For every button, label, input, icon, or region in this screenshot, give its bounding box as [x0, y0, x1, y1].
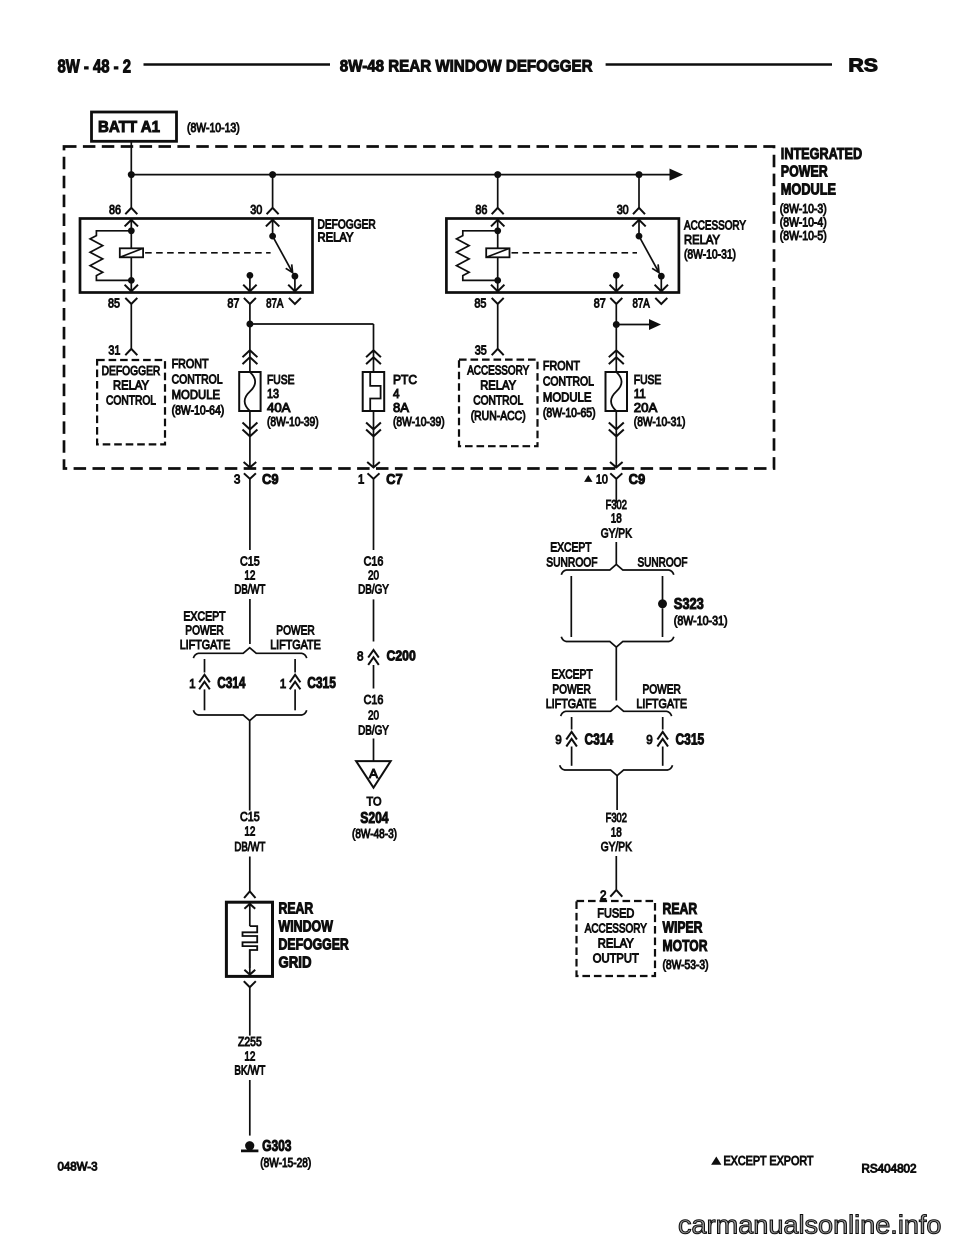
svg-text:C200: C200	[387, 647, 416, 664]
bus wire from battery	[131, 174, 670, 176]
svg-text:DEFOGGER: DEFOGGER	[318, 217, 376, 231]
svg-text:RELAY: RELAY	[113, 379, 150, 393]
header rule right	[606, 63, 832, 66]
svg-text:86: 86	[475, 202, 487, 217]
wire bus to accessory relay pin 30	[638, 175, 640, 208]
svg-text:(8W-53-3): (8W-53-3)	[663, 958, 709, 972]
grid pin connector	[244, 891, 255, 898]
wire except-sunroof branch	[570, 576, 572, 637]
svg-text:ACCESSORY: ACCESSORY	[585, 922, 648, 936]
svg-text:ACCESSORY: ACCESSORY	[684, 219, 747, 233]
defogger relay contact 87A	[292, 273, 299, 280]
splice S323	[658, 599, 667, 608]
svg-text:RELAY: RELAY	[480, 379, 517, 393]
svg-text:BATT A1: BATT A1	[98, 119, 160, 136]
liftgate split brace right column	[561, 706, 672, 716]
off-page reference triangle A	[356, 761, 391, 788]
connector C314 pin 9	[566, 732, 577, 740]
svg-text:LIFTGATE: LIFTGATE	[636, 696, 687, 711]
wire to off-page triangle	[373, 739, 375, 762]
svg-text:8A: 8A	[393, 401, 410, 415]
battery feed box BATT A1	[92, 112, 177, 141]
PTC 4	[363, 372, 385, 411]
svg-text:(8W-48-3): (8W-48-3)	[352, 827, 397, 841]
wire to ground	[249, 1080, 251, 1136]
svg-text:4: 4	[393, 387, 400, 401]
svg-text:20: 20	[368, 708, 379, 723]
svg-text:EXCEPT: EXCEPT	[550, 539, 591, 554]
accessory relay contact 87A	[658, 273, 665, 280]
PTC 4 connector chevrons bottom	[366, 423, 381, 430]
wire C200 down	[373, 665, 375, 689]
svg-text:REAR: REAR	[279, 901, 314, 918]
svg-text:C16: C16	[364, 553, 384, 568]
svg-text:CONTROL: CONTROL	[543, 375, 594, 389]
wire C315-1 down	[294, 689, 296, 710]
rear window defogger grid box	[226, 902, 272, 976]
svg-text:POWER: POWER	[781, 164, 828, 181]
svg-text:18: 18	[611, 824, 622, 839]
svg-text:C9: C9	[629, 471, 646, 488]
svg-text:(8W-15-28): (8W-15-28)	[260, 1156, 311, 1170]
svg-text:(8W-10-31): (8W-10-31)	[634, 415, 686, 429]
wire merge to C15 label	[249, 721, 251, 811]
svg-text:DEFOGGER: DEFOGGER	[102, 364, 161, 378]
accessory relay bottom pin connectors	[492, 298, 504, 304]
svg-text:11: 11	[634, 387, 646, 401]
svg-text:FUSED: FUSED	[597, 907, 634, 921]
wire defogger 85 to pin 31	[130, 304, 132, 349]
svg-text:31: 31	[108, 343, 120, 358]
svg-text:(8W-10-31): (8W-10-31)	[674, 614, 728, 628]
defogger relay contact 87	[247, 272, 254, 279]
svg-text:C15: C15	[240, 809, 260, 824]
grid internal bottom arrow	[249, 950, 251, 976]
svg-text:GRID: GRID	[279, 955, 312, 972]
svg-text:SUNROOF: SUNROOF	[638, 554, 688, 569]
svg-text:LIFTGATE: LIFTGATE	[546, 696, 597, 711]
header rule left	[144, 63, 331, 66]
svg-text:S323: S323	[674, 596, 704, 613]
integrated power module dashed border	[64, 147, 774, 469]
accessory relay pin 86 internal wire	[497, 219, 499, 281]
bus arrow continuation	[670, 169, 682, 180]
fuse 11	[606, 372, 628, 411]
svg-text:RS: RS	[848, 56, 878, 76]
svg-text:PTC: PTC	[393, 373, 417, 387]
svg-text:TO: TO	[367, 795, 382, 809]
svg-text:9: 9	[555, 732, 562, 747]
svg-text:RELAY: RELAY	[598, 937, 635, 951]
svg-text:CONTROL: CONTROL	[106, 393, 156, 407]
svg-text:C16: C16	[364, 692, 384, 707]
svg-text:1: 1	[280, 676, 287, 691]
wire to sunroof split	[615, 542, 617, 565]
defogger relay linkage dashed	[145, 252, 271, 254]
svg-text:20: 20	[368, 567, 379, 582]
svg-text:(8W-10-65): (8W-10-65)	[543, 406, 596, 420]
wire PTC to C7	[373, 411, 375, 467]
wire to C314 pin 9	[571, 717, 573, 730]
wire BATT A1 to bus	[130, 141, 132, 174]
svg-text:10: 10	[596, 471, 608, 486]
svg-text:(8W-10-31): (8W-10-31)	[684, 248, 736, 262]
svg-text:F302: F302	[606, 810, 627, 825]
ground G303	[245, 1141, 254, 1150]
wire to C315 pin 9	[662, 717, 664, 730]
wire sunroof branch upper	[662, 576, 664, 600]
svg-text:(8W-10-64): (8W-10-64)	[172, 404, 225, 418]
wire to C314 pin 1	[204, 659, 206, 673]
defogger relay coil	[120, 248, 143, 257]
svg-text:FRONT: FRONT	[543, 359, 580, 373]
svg-text:EXCEPT EXPORT: EXCEPT EXPORT	[724, 1154, 814, 1168]
wire merge to liftgate split right	[615, 647, 617, 700]
svg-text:S204: S204	[360, 810, 389, 827]
defogger relay coil resistor	[90, 231, 131, 281]
wire C314 down	[571, 747, 573, 766]
rear wiper motor dashed box	[577, 901, 656, 976]
connector C9 pin 10 at IPM border	[610, 462, 623, 467]
svg-text:INTEGRATED: INTEGRATED	[781, 146, 862, 163]
wire bus to accessory relay pin 86	[497, 175, 499, 208]
liftgate merge brace left column	[193, 710, 306, 720]
accessory relay coil resistor	[457, 231, 498, 281]
bus junction node accessory 86	[494, 171, 501, 178]
wire merge to F302 label	[616, 776, 618, 810]
bus junction node battery	[128, 171, 135, 178]
svg-text:12: 12	[244, 1048, 255, 1063]
defogger relay bottom pin connectors	[125, 298, 137, 304]
wire grid to Z255 label	[249, 987, 251, 1035]
connector C315 pin 9	[657, 732, 668, 740]
svg-text:85: 85	[474, 295, 486, 310]
svg-text:85: 85	[108, 295, 120, 310]
grid internal top arrow	[249, 902, 251, 926]
defogger relay pin 86 internal wire	[130, 219, 132, 281]
wire fuse 13 to C9	[249, 411, 251, 467]
svg-text:1: 1	[189, 676, 196, 691]
fuse 13	[239, 372, 260, 411]
connector C314 pin 1	[199, 675, 210, 683]
wire to C315 pin 1	[294, 659, 296, 673]
svg-text:1: 1	[358, 471, 365, 486]
junction node defogger 87 feed	[246, 321, 253, 328]
connector C9 pin 3 at IPM border	[244, 462, 257, 467]
accessory relay control dashed box	[459, 360, 538, 447]
svg-text:(8W-10-39): (8W-10-39)	[393, 415, 445, 429]
sunroof merge brace	[561, 637, 674, 647]
defogger relay pin 85 internal wire	[130, 280, 132, 291]
wire to C200	[373, 599, 375, 641]
sunroof split brace	[561, 564, 674, 574]
connector C200 pin 8	[368, 650, 379, 658]
svg-text:87A: 87A	[633, 295, 651, 310]
svg-text:C7: C7	[386, 471, 403, 488]
svg-text:30: 30	[617, 202, 629, 217]
svg-text:CONTROL: CONTROL	[172, 373, 223, 387]
liftgate split brace left column	[193, 648, 306, 658]
svg-text:DB/GY: DB/GY	[358, 582, 389, 597]
wire sunroof branch lower	[662, 608, 664, 637]
fuse 13 connector chevrons bottom	[243, 423, 258, 430]
svg-text:LIFTGATE: LIFTGATE	[270, 637, 321, 652]
svg-text:LIFTGATE: LIFTGATE	[180, 637, 231, 652]
svg-text:G303: G303	[262, 1138, 291, 1155]
svg-text:9: 9	[646, 732, 653, 747]
footer except-export note	[712, 1157, 721, 1164]
svg-text:87: 87	[227, 295, 239, 310]
wire to defogger grid	[249, 857, 251, 892]
wire accessory 85 to pin 35	[497, 304, 499, 349]
svg-text:DB/GY: DB/GY	[358, 722, 389, 737]
relay box accessory relay	[446, 219, 679, 293]
connector C7 pin 1 at IPM border	[367, 462, 380, 467]
svg-text:40A: 40A	[267, 401, 291, 415]
svg-text:(8W-10-3): (8W-10-3)	[780, 202, 827, 216]
svg-text:FUSE: FUSE	[267, 373, 295, 387]
wire C9-3 down	[249, 479, 251, 550]
svg-text:13: 13	[267, 387, 279, 401]
svg-text:ACCESSORY: ACCESSORY	[467, 363, 530, 377]
wire to rear wiper motor pin 2	[615, 856, 617, 890]
wire fuse 11 to C9	[615, 411, 617, 467]
wire C314-1 down	[204, 689, 206, 710]
wire defogger 87 to junction	[249, 304, 251, 324]
svg-text:POWER: POWER	[185, 623, 223, 638]
wire accessory 87 to junction	[615, 304, 617, 325]
junction node accessory 87 feed	[613, 321, 620, 328]
svg-text:86: 86	[109, 202, 121, 217]
accessory relay pin 30 internal wire and switch arm	[638, 219, 640, 237]
svg-text:carmanualsonline.info: carmanualsonline.info	[678, 1209, 942, 1239]
wire C7-1 down	[373, 479, 375, 550]
svg-text:MODULE: MODULE	[781, 181, 836, 198]
pin 35 connector	[492, 349, 504, 355]
svg-text:DB/WT: DB/WT	[234, 582, 265, 597]
svg-text:FRONT: FRONT	[172, 357, 209, 371]
branch arrow to other circuits	[616, 324, 650, 326]
svg-text:3: 3	[234, 471, 241, 486]
wire junction to fuse 11	[615, 325, 617, 373]
svg-text:GY/PK: GY/PK	[601, 526, 632, 541]
svg-text:(8W-10-5): (8W-10-5)	[780, 229, 827, 243]
fuse 13 connector chevrons top	[243, 350, 258, 357]
svg-text:048W-3: 048W-3	[58, 1161, 98, 1173]
svg-text:(8W-10-13): (8W-10-13)	[187, 121, 240, 135]
grid bottom pin connector	[244, 981, 256, 987]
wire junction down to fuse 13	[249, 324, 251, 372]
svg-text:35: 35	[475, 343, 487, 358]
svg-text:RELAY: RELAY	[318, 231, 355, 245]
svg-text:C9: C9	[262, 471, 279, 488]
svg-text:RELAY: RELAY	[684, 233, 721, 247]
wire bus to defogger relay pin 30	[272, 175, 274, 208]
svg-text:EXCEPT: EXCEPT	[551, 667, 592, 682]
svg-text:C315: C315	[676, 731, 705, 748]
svg-text:Z255: Z255	[238, 1034, 262, 1049]
defogger relay control dashed box	[97, 360, 165, 444]
svg-text:8W-48 REAR WINDOW DEFOGGER: 8W-48 REAR WINDOW DEFOGGER	[340, 56, 593, 75]
svg-text:REAR: REAR	[663, 901, 698, 918]
svg-text:DB/WT: DB/WT	[234, 839, 265, 854]
fuse 11 connector chevrons top	[609, 350, 624, 357]
wire to liftgate split	[249, 599, 251, 644]
svg-text:C314: C314	[217, 675, 245, 692]
accessory relay coil	[486, 248, 509, 257]
svg-text:RS404802: RS404802	[862, 1163, 917, 1175]
wire bus to defogger relay pin 86	[130, 175, 132, 208]
svg-text:DEFOGGER: DEFOGGER	[279, 936, 350, 953]
fuse 11 connector chevrons bottom	[609, 423, 624, 430]
svg-text:CONTROL: CONTROL	[473, 394, 523, 408]
liftgate merge brace right column	[560, 765, 673, 775]
svg-text:C314: C314	[585, 731, 614, 748]
grid element meander	[243, 926, 258, 968]
svg-text:12: 12	[244, 823, 255, 838]
svg-text:87: 87	[594, 295, 606, 310]
svg-text:BK/WT: BK/WT	[234, 1063, 265, 1078]
PTC 4 connector chevrons top	[366, 350, 381, 357]
svg-text:87A: 87A	[266, 295, 284, 310]
svg-text:GY/PK: GY/PK	[601, 839, 632, 854]
svg-text:(RUN-ACC): (RUN-ACC)	[471, 409, 526, 423]
bus junction node accessory 30	[636, 171, 643, 178]
svg-text:EXCEPT: EXCEPT	[183, 609, 225, 624]
svg-text:A: A	[369, 767, 379, 781]
defogger relay pin 30 internal wire and switch arm	[272, 219, 274, 237]
wire C315 down	[662, 747, 664, 766]
svg-text:C15: C15	[240, 553, 260, 568]
svg-text:20A: 20A	[634, 401, 658, 415]
svg-text:POWER: POWER	[276, 623, 314, 638]
relay box defogger relay	[80, 219, 313, 293]
svg-text:12: 12	[244, 567, 255, 582]
wire C9-10 down	[615, 479, 617, 503]
accessory relay pin 85 internal wire	[497, 280, 499, 291]
svg-text:(8W-10-39): (8W-10-39)	[267, 415, 319, 429]
svg-text:OUTPUT: OUTPUT	[593, 952, 639, 966]
svg-text:(8W-10-4): (8W-10-4)	[780, 215, 827, 229]
connector C315 pin 1	[290, 675, 301, 683]
wire junction to PTC branch	[250, 323, 374, 325]
svg-text:POWER: POWER	[643, 681, 681, 696]
svg-text:FUSE: FUSE	[634, 373, 662, 387]
accessory relay contact 87	[613, 272, 620, 279]
bus junction node defogger 30	[269, 171, 276, 178]
svg-text:30: 30	[250, 202, 262, 217]
svg-text:C315: C315	[307, 675, 336, 692]
pin 31 connector	[125, 349, 137, 355]
svg-text:WINDOW: WINDOW	[279, 919, 334, 936]
accessory relay linkage dashed	[512, 252, 638, 254]
svg-text:MOTOR: MOTOR	[663, 938, 708, 955]
svg-text:WIPER: WIPER	[663, 920, 703, 937]
svg-text:POWER: POWER	[552, 681, 590, 696]
svg-text:SUNROOF: SUNROOF	[546, 554, 597, 569]
svg-text:8: 8	[357, 649, 364, 664]
svg-text:18: 18	[611, 511, 622, 526]
svg-text:MODULE: MODULE	[543, 390, 592, 404]
svg-text:8W - 48 - 2: 8W - 48 - 2	[58, 56, 132, 76]
pin 2 connector	[610, 890, 622, 897]
svg-text:MODULE: MODULE	[172, 388, 221, 402]
